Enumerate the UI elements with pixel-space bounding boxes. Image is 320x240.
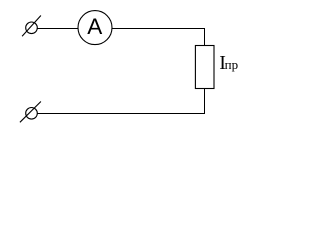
resistor Rpr (body)	[195, 46, 214, 89]
wire: ammeter to top-right corner	[112, 28, 205, 30]
wire: top terminal to ammeter	[37, 28, 78, 30]
svg-text:A: A	[87, 14, 102, 39]
wire: top-right corner down to resistor top lead	[204, 28, 206, 46]
wire: bottom wire from terminal to bottom-right corner	[37, 113, 205, 115]
terminal X1 (top input clamp)	[22, 16, 41, 37]
terminal X2 (bottom input clamp)	[20, 102, 41, 123]
ammeter PA1	[78, 11, 112, 45]
wire: resistor bottom lead down to bottom wire	[204, 89, 206, 115]
